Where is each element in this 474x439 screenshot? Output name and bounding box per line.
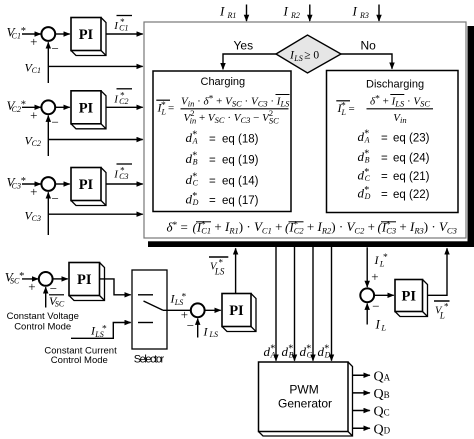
svg-text:VC2*: VC2* [7,98,27,114]
svg-text:ILS*: ILS* [90,324,107,340]
outer box shadow bottom [148,241,474,247]
wire SJ4 to PI4 [53,278,68,280]
outer box shadow right [468,26,474,247]
wire V_C2 feedback [25,116,143,156]
svg-text:Discharging: Discharging [366,79,424,91]
wire d_C* [300,242,314,361]
wire selector to SJ5 [163,292,191,311]
svg-text:+: + [30,184,37,199]
charging box [153,71,291,212]
wire V_C2* to junction [22,106,41,108]
svg-text:QD: QD [374,422,391,437]
svg-text:ILS≥ 0: ILS≥ 0 [289,48,319,63]
PWM generator box [259,362,353,436]
svg-text:ILS*: ILS* [170,292,187,308]
svg-text:I*C1: I*C1 [113,17,128,33]
wire V_LS* output up [209,248,236,293]
svg-text:I*L=: I*L= [337,101,355,117]
output Q_A [353,369,391,384]
output Q_D [353,422,391,437]
wire SJ1 to PI1 [55,33,69,35]
wire V_SC feedback [46,287,65,308]
svg-text:d*C: d*C [300,344,313,360]
svg-text:Charging: Charging [201,76,246,88]
svg-text:PI: PI [229,303,244,319]
wire No branch [341,39,392,69]
svg-text:+: + [28,279,35,294]
wire V_SC* to junction [22,278,38,280]
svg-text:+: + [30,34,37,49]
wire SJ3 to PI3 [55,183,69,185]
wire V_C3* to junction [22,183,41,185]
summing junction SJ1 [30,27,59,56]
wire I_R3 [378,5,380,22]
wire d_A* [264,242,277,361]
svg-text:No: No [361,39,377,53]
summing junction SJ5 [181,303,205,333]
svg-text:Control Mode: Control Mode [51,355,108,366]
wire PI4 to selector [100,279,131,295]
wire I_LS feedback [198,319,218,339]
wire SJ2 to PI2 [55,106,69,108]
wire I_C2* output [106,89,143,108]
charging numerator [181,94,290,108]
label constant voltage control mode [7,311,79,333]
selector box [132,270,167,349]
PI controller U2 [71,91,106,129]
svg-text:PI: PI [79,27,94,43]
svg-text:VSC: VSC [49,294,65,309]
svg-text:QC: QC [374,405,390,420]
svg-text:d*D: d*D [318,344,331,360]
svg-text:I*L=: I*L= [157,101,175,117]
summing junction SJ4 [28,272,57,296]
wire I_C3* output [106,164,143,184]
wire I_R2 [309,5,311,22]
summing junction SJ2 [30,100,59,129]
svg-text:Constant Voltage: Constant Voltage [7,311,79,322]
wire SJ6 to PI6 [374,294,394,296]
PI controller U5 [222,294,256,332]
svg-text:−: − [187,318,194,333]
wire V_L* output up [428,248,450,320]
svg-text:IL: IL [375,317,387,333]
wire V_C1 feedback [25,42,143,83]
svg-text:PI: PI [79,177,94,193]
PI controller U1 [71,18,106,56]
svg-text:−: − [52,41,59,56]
svg-text:PI: PI [79,101,94,117]
svg-text:I*C2: I*C2 [113,90,128,106]
svg-text:VC1*: VC1* [7,25,27,41]
wire d_B* [282,242,295,361]
svg-text:d*A: d*A [264,344,276,360]
summing junction SJ6 [360,288,379,313]
PI controller U6 [395,280,428,317]
discharging numerator [370,94,430,108]
svg-text:−: − [52,191,59,206]
svg-text:VC1: VC1 [25,61,41,76]
wire V_C3 feedback [25,192,143,235]
outer box [144,22,466,238]
svg-text:VC2: VC2 [25,134,41,149]
wire V_C1* to junction [22,33,41,35]
summing junction SJ3 [30,177,59,206]
svg-text:Yes: Yes [234,39,254,53]
wire I_L* input down [367,247,388,287]
svg-text:VC3: VC3 [25,208,41,223]
wire Yes branch [223,39,276,70]
svg-text:+: + [371,269,378,284]
svg-text:PI: PI [402,289,417,305]
svg-text:VC3*: VC3* [7,175,27,191]
svg-text:ILS: ILS [203,325,218,340]
svg-text:PWM: PWM [289,382,318,396]
svg-text:VL*: VL* [435,302,449,321]
svg-text:Generator: Generator [278,396,332,410]
output Q_C [353,405,390,420]
svg-text:QA: QA [374,369,391,384]
svg-text:VLS*: VLS* [210,258,225,277]
svg-text:IR3: IR3 [352,4,369,21]
svg-text:VSC*: VSC* [5,270,25,286]
svg-text:IR1: IR1 [219,4,236,21]
svg-text:−: − [52,115,59,130]
wire SJ5 to PI5 [205,309,221,311]
PI controller U3 [71,168,106,206]
wire I_C1* output [106,16,143,35]
svg-text:IR2: IR2 [283,4,300,21]
svg-text:QB: QB [374,387,390,402]
svg-text:IL*: IL* [374,253,389,269]
decision diamond I_LS>=0 [276,35,341,73]
discharging formula lhs IL* [336,101,354,117]
wire d_D* [318,242,332,361]
svg-text:+: + [30,107,37,122]
charging formula lhs IL* [156,100,174,116]
svg-text:δ* =: δ* = [167,220,192,235]
svg-text:Selector: Selector [134,354,165,366]
svg-text:PI: PI [77,272,92,288]
delta formula [167,219,457,236]
svg-text:Control Mode: Control Mode [14,322,71,333]
label constant current control mode [44,346,117,367]
wire I_R1 [246,5,248,22]
discharging fraction bar [367,108,434,110]
svg-text:−: − [372,299,379,314]
discharging box [327,71,459,213]
output Q_B [353,387,390,402]
svg-text:d*B: d*B [282,344,294,360]
PI controller U4 [69,263,105,301]
wire I_L feedback [367,304,386,333]
wire I_LS* to selector [71,323,131,339]
svg-text:I*C3: I*C3 [113,166,128,182]
charging fraction bar [181,108,289,110]
